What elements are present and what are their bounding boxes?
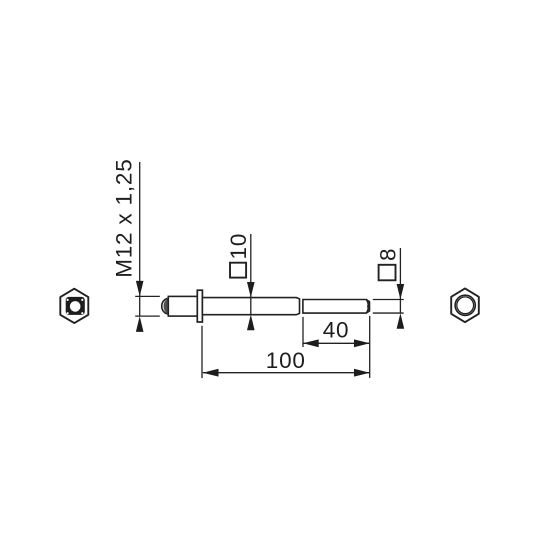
dim 8 arrow up: [397, 313, 405, 329]
dim 40 arrow right: [354, 339, 370, 347]
spindle flange: [197, 290, 202, 322]
dim 40 arrow left: [303, 339, 319, 347]
dim 8 extension top: [373, 299, 404, 301]
left nut corner dots: [67, 299, 69, 301]
dim 100 arrow right: [354, 369, 370, 377]
dim 40 line: [303, 342, 370, 344]
M12 dimension line: [139, 162, 141, 316]
square symbol 8: [379, 265, 396, 281]
dim 10 arrow down: [247, 282, 255, 298]
svg-text:8: 8: [375, 248, 400, 261]
spindle square shaft 8mm: [303, 300, 370, 314]
dim 8 line: [399, 248, 401, 313]
spindle thread cylinder M12: [168, 296, 197, 316]
dim 100/40 extension right: [369, 316, 371, 378]
dim 40 extension left: [302, 317, 304, 347]
M12 tick top: [135, 295, 160, 297]
M12 arrow down: [136, 281, 144, 297]
dim 100 arrow left: [203, 369, 219, 377]
M12 tick bottom: [135, 315, 160, 317]
square symbol 10: [230, 263, 246, 278]
svg-text:100: 100: [266, 348, 306, 373]
spindle square body 10mm: [202, 298, 299, 315]
dim 100 extension left: [201, 326, 203, 378]
dim 10 line: [250, 234, 252, 315]
M12 arrow up: [136, 316, 144, 332]
svg-text:M12 x 1,25: M12 x 1,25: [112, 158, 137, 277]
right nut outer circle: [455, 295, 475, 315]
svg-text:10: 10: [226, 233, 251, 260]
shaft end chamfer arc: [366, 300, 368, 314]
left nut square insert: [66, 297, 85, 315]
left nut hexagon: [60, 289, 88, 323]
right nut hexagon: [451, 288, 479, 322]
right nut inner circle: [457, 297, 474, 314]
spindle dome tip: [162, 298, 169, 314]
dim 8 arrow down: [397, 284, 405, 299]
svg-text:40: 40: [323, 317, 350, 342]
left nut bore circle: [70, 301, 81, 312]
dim 8 extension bottom: [373, 312, 404, 314]
dim 100 line: [203, 372, 370, 374]
shaft end reverse arc: [368, 302, 370, 311]
dim 10 arrow up: [247, 315, 255, 331]
